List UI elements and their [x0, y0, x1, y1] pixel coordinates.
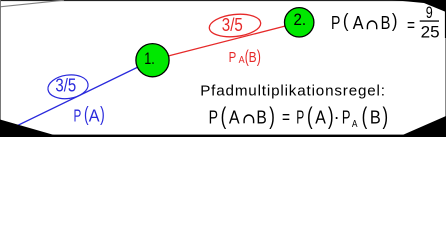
svg-text:2.: 2. — [294, 10, 307, 29]
svg-text:): ) — [269, 104, 275, 130]
svg-text:): ) — [257, 46, 261, 66]
red ellipse around 3/5 — [208, 12, 262, 39]
svg-text:): ) — [100, 103, 105, 126]
svg-text:B: B — [370, 107, 381, 127]
svg-text:=: = — [282, 107, 290, 127]
glyph cap — [367, 21, 376, 29]
svg-text:=: = — [407, 15, 415, 35]
black edge strip right-top — [445, 0, 446, 38]
red branch line PA(B) — [153, 23, 300, 61]
fraction bar — [420, 20, 439, 21]
svg-text:): ) — [382, 104, 388, 130]
svg-text:): ) — [392, 10, 398, 32]
svg-text:P: P — [229, 49, 237, 66]
svg-text:Pfadmultiplikationsregel:: Pfadmultiplikationsregel: — [200, 83, 385, 100]
svg-text:B: B — [249, 49, 257, 66]
glyph cap — [244, 115, 254, 123]
svg-text:A: A — [352, 118, 358, 130]
svg-text:A: A — [315, 107, 326, 127]
black corner wedge top-right — [392, 0, 446, 12]
svg-text:P: P — [342, 107, 351, 127]
node 2 green circle — [285, 8, 314, 37]
svg-text:25: 25 — [421, 23, 440, 42]
svg-text:(: ( — [307, 104, 313, 130]
grey edge hairline right — [444, 0, 446, 137]
black corner hairline top-left — [0, 0, 64, 7]
svg-text:P: P — [209, 107, 218, 127]
svg-text:B: B — [381, 13, 391, 33]
svg-text:A: A — [89, 105, 100, 125]
svg-text:(: ( — [343, 10, 349, 32]
svg-text:·: · — [334, 107, 340, 127]
svg-text:(: ( — [221, 104, 227, 130]
black corner wedge bottom-left — [0, 120, 61, 138]
svg-text:A: A — [229, 107, 240, 127]
grey edge hairline left — [0, 0, 2, 137]
svg-text:P: P — [74, 105, 82, 125]
black edge hairline top — [0, 0, 446, 1]
black edge strip bottom — [0, 135, 446, 137]
blue branch line P(A) — [0, 60, 153, 134]
svg-text:P: P — [331, 13, 340, 33]
svg-text:1.: 1. — [144, 49, 155, 68]
node 1 green circle — [136, 44, 169, 77]
black corner wedge bottom-right — [398, 116, 446, 137]
svg-text:3/5: 3/5 — [222, 15, 243, 35]
svg-text:P: P — [296, 107, 304, 127]
svg-text:(: ( — [362, 104, 368, 130]
svg-text:3/5: 3/5 — [55, 76, 76, 96]
svg-text:A: A — [353, 13, 364, 33]
svg-text:B: B — [256, 107, 266, 127]
blue ellipse around 3/5 — [46, 72, 89, 101]
